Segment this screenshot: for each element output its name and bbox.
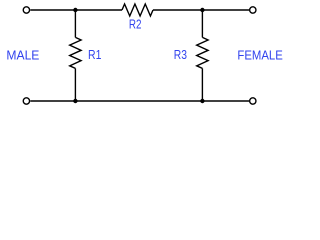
svg-text:R2: R2 xyxy=(129,16,142,31)
junction dot top-right node xyxy=(200,8,204,12)
junction dot bottom-right node xyxy=(200,99,204,103)
resistor R1 zigzag xyxy=(70,37,81,68)
terminal male bottom xyxy=(23,98,29,104)
wire top rail left segment xyxy=(30,9,122,11)
resistor R1 (shunt, left): top lead xyxy=(74,10,76,37)
junction dot top-left node xyxy=(73,8,77,12)
svg-text:MALE: MALE xyxy=(6,48,39,63)
resistor R2 (series, horizontal) xyxy=(122,4,153,16)
svg-text:R1: R1 xyxy=(88,47,101,62)
terminal female bottom xyxy=(250,98,256,104)
terminal male top xyxy=(23,7,29,13)
circuit schematic: attenuator pad between MALE and FEMALE connectors xyxy=(0,0,289,126)
resistor R3 bottom lead xyxy=(201,68,203,101)
resistor R3 (shunt, right): top lead xyxy=(201,10,203,37)
svg-text:R3: R3 xyxy=(174,47,187,62)
terminal female top xyxy=(250,7,256,13)
wire bottom rail xyxy=(30,100,249,102)
resistor R1 bottom lead xyxy=(74,68,76,101)
junction dot bottom-left node xyxy=(73,99,77,103)
wire top rail right segment xyxy=(153,9,249,11)
resistor R3 zigzag xyxy=(197,37,208,68)
svg-text:FEMALE: FEMALE xyxy=(237,48,283,63)
